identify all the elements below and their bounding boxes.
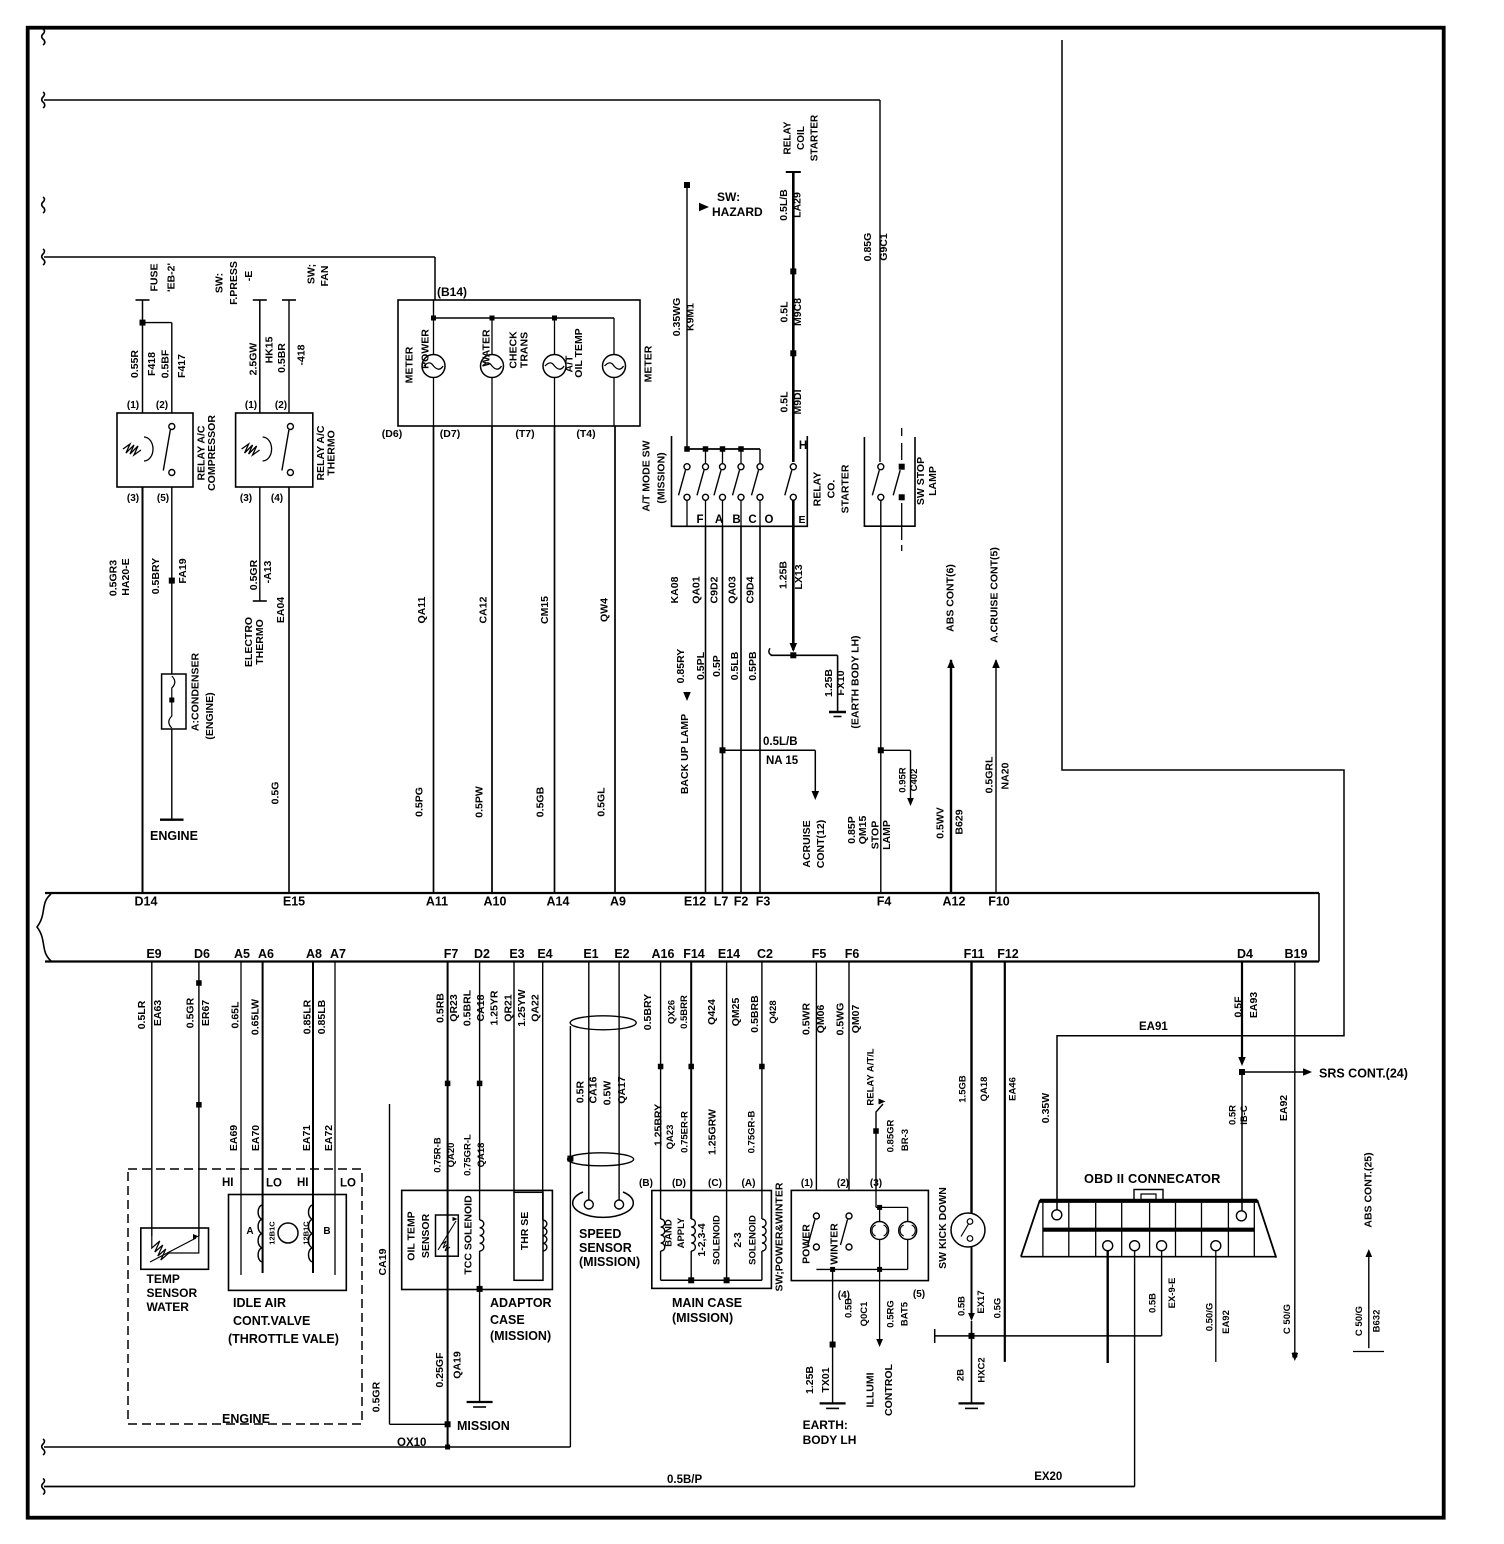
svg-text:CONTROL: CONTROL — [883, 1363, 895, 1415]
svg-text:ACRUISE: ACRUISE — [801, 820, 813, 867]
svg-text:EX-9-E: EX-9-E — [1167, 1278, 1178, 1309]
svg-text:F: F — [696, 514, 703, 526]
svg-text:SW;: SW; — [305, 264, 317, 284]
svg-text:CA12: CA12 — [478, 596, 490, 623]
svg-text:ER67: ER67 — [200, 1000, 212, 1026]
svg-text:BR-3: BR-3 — [900, 1129, 911, 1151]
svg-text:QA03: QA03 — [727, 576, 739, 604]
svg-text:E14: E14 — [718, 947, 740, 961]
svg-text:EX20: EX20 — [1034, 1471, 1062, 1483]
svg-text:EA69: EA69 — [228, 1125, 240, 1151]
svg-text:E3: E3 — [509, 947, 524, 961]
svg-text:(MISSION): (MISSION) — [672, 1311, 733, 1325]
svg-text:F10: F10 — [988, 895, 1010, 909]
svg-text:SENSOR: SENSOR — [147, 1286, 198, 1300]
svg-text:SENSOR: SENSOR — [579, 1241, 632, 1255]
svg-text:0.5PW: 0.5PW — [474, 786, 486, 818]
svg-text:EA63: EA63 — [152, 1000, 164, 1026]
svg-text:QA18: QA18 — [476, 1143, 487, 1168]
svg-text:0.5BRR: 0.5BRR — [679, 995, 690, 1029]
svg-text:EX17: EX17 — [976, 1290, 987, 1313]
svg-text:EA92: EA92 — [1278, 1095, 1290, 1121]
svg-text:0.75R-B: 0.75R-B — [433, 1137, 444, 1173]
svg-text:A12: A12 — [943, 895, 966, 909]
svg-text:1.25YR: 1.25YR — [489, 990, 501, 1025]
svg-text:(MISSION): (MISSION) — [490, 1329, 551, 1343]
svg-text:EA92: EA92 — [1221, 1310, 1232, 1334]
svg-text:A14: A14 — [547, 895, 570, 909]
svg-text:A: A — [715, 514, 723, 526]
svg-text:B: B — [323, 1226, 330, 1237]
svg-text:0.55R: 0.55R — [129, 350, 141, 378]
svg-text:A: A — [246, 1226, 253, 1237]
svg-text:0.5B: 0.5B — [1148, 1293, 1159, 1313]
svg-text:SPEED: SPEED — [579, 1227, 621, 1241]
svg-text:0.5L: 0.5L — [779, 391, 791, 413]
svg-text:TCC SOLENOID: TCC SOLENOID — [463, 1195, 475, 1275]
svg-text:0.5F: 0.5F — [1232, 996, 1244, 1018]
svg-text:THERMO: THERMO — [254, 619, 266, 665]
svg-text:0.50/G: 0.50/G — [1204, 1303, 1215, 1332]
svg-text:0.5G: 0.5G — [993, 1298, 1004, 1319]
svg-text:F14: F14 — [683, 947, 705, 961]
svg-text:0.5R: 0.5R — [574, 1080, 586, 1103]
svg-text:0.5GR: 0.5GR — [185, 997, 197, 1028]
svg-text:EA93: EA93 — [1248, 992, 1260, 1018]
svg-text:A16: A16 — [652, 947, 675, 961]
svg-text:0.75GR-L: 0.75GR-L — [463, 1134, 474, 1176]
svg-text:0.5GB: 0.5GB — [535, 786, 547, 817]
svg-text:D6: D6 — [194, 947, 210, 961]
svg-text:K9M1: K9M1 — [685, 303, 697, 331]
svg-text:(B): (B) — [639, 1178, 653, 1189]
svg-text:(1): (1) — [245, 400, 257, 411]
svg-text:0.5B: 0.5B — [844, 1298, 855, 1318]
svg-text:ELECTRO: ELECTRO — [243, 617, 255, 667]
svg-text:0.85RY: 0.85RY — [675, 649, 687, 684]
svg-text:TRANS: TRANS — [519, 332, 531, 368]
svg-text:(1): (1) — [801, 1178, 813, 1189]
svg-text:1.25B: 1.25B — [778, 561, 790, 589]
svg-text:FA19: FA19 — [177, 558, 189, 583]
svg-text:A7: A7 — [330, 947, 346, 961]
svg-text:POWER: POWER — [420, 329, 432, 369]
svg-text:0.5L/B: 0.5L/B — [763, 736, 798, 748]
svg-text:(5): (5) — [913, 1289, 925, 1300]
svg-text:EA72: EA72 — [323, 1125, 335, 1151]
svg-text:0.5GRL: 0.5GRL — [984, 756, 996, 793]
svg-text:HK15: HK15 — [263, 336, 275, 363]
svg-text:QA23: QA23 — [665, 1125, 676, 1150]
svg-text:(T4): (T4) — [576, 428, 595, 440]
svg-text:F2: F2 — [734, 895, 749, 909]
svg-text:F11: F11 — [964, 947, 985, 961]
svg-text:0.5L/B: 0.5L/B — [778, 189, 790, 221]
svg-text:H: H — [799, 440, 807, 452]
svg-text:C9D4: C9D4 — [745, 576, 757, 603]
svg-text:QA19: QA19 — [452, 1351, 464, 1379]
svg-text:E4: E4 — [537, 947, 552, 961]
svg-text:0.5GR3: 0.5GR3 — [108, 560, 120, 596]
svg-text:B19: B19 — [1285, 947, 1308, 961]
svg-text:0.5WR: 0.5WR — [801, 1003, 813, 1036]
svg-text:QM25: QM25 — [730, 998, 742, 1027]
svg-text:0.5PL: 0.5PL — [695, 651, 707, 680]
svg-text:B632: B632 — [1372, 1310, 1383, 1333]
svg-text:F418: F418 — [146, 352, 158, 376]
svg-text:BAND: BAND — [664, 1219, 675, 1247]
svg-text:0.75ER-R: 0.75ER-R — [680, 1111, 691, 1153]
svg-text:12B1C: 12B1C — [302, 1221, 311, 1245]
svg-text:CM15: CM15 — [539, 596, 551, 624]
svg-text:NA20: NA20 — [1000, 762, 1012, 789]
svg-text:CONT(12): CONT(12) — [815, 820, 827, 868]
svg-text:METER: METER — [643, 345, 655, 382]
svg-text:TX01: TX01 — [820, 1367, 832, 1392]
svg-text:QM15: QM15 — [857, 816, 869, 845]
svg-text:0.5RB: 0.5RB — [435, 993, 447, 1023]
svg-text:0.5WG: 0.5WG — [835, 1003, 847, 1036]
svg-text:LO: LO — [266, 1178, 282, 1190]
svg-text:M9DI: M9DI — [792, 389, 804, 414]
svg-text:QM06: QM06 — [815, 1005, 827, 1034]
svg-text:-418: -418 — [295, 344, 307, 365]
svg-text:C2: C2 — [757, 947, 773, 961]
svg-text:THR SE: THR SE — [519, 1212, 531, 1251]
svg-text:1-2,3-4: 1-2,3-4 — [696, 1223, 708, 1256]
svg-text:SW STOP: SW STOP — [915, 457, 927, 505]
svg-text:'EB-2': 'EB-2' — [166, 263, 178, 292]
svg-text:QA01: QA01 — [691, 576, 703, 604]
svg-text:G9C1: G9C1 — [878, 233, 890, 261]
svg-text:NA 15: NA 15 — [766, 755, 799, 767]
svg-text:-E: -E — [243, 271, 255, 282]
svg-text:WATER: WATER — [481, 329, 493, 367]
svg-text:CA18: CA18 — [475, 994, 487, 1021]
svg-text:0.5BRB: 0.5BRB — [749, 995, 761, 1033]
svg-text:0.65L: 0.65L — [230, 1001, 242, 1028]
svg-text:D14: D14 — [135, 895, 158, 909]
svg-text:METER: METER — [404, 346, 416, 383]
svg-text:HI: HI — [222, 1177, 234, 1189]
svg-text:(C): (C) — [708, 1178, 722, 1189]
svg-text:D4: D4 — [1237, 947, 1253, 961]
svg-text:0.25GF: 0.25GF — [434, 1352, 446, 1388]
svg-text:A9: A9 — [610, 895, 626, 909]
svg-text:0.5B: 0.5B — [957, 1296, 968, 1316]
svg-text:0.5BRY: 0.5BRY — [150, 558, 162, 594]
svg-text:LA29: LA29 — [792, 192, 804, 218]
svg-text:1.25BRY: 1.25BRY — [653, 1104, 665, 1146]
svg-text:(5): (5) — [157, 493, 169, 504]
svg-text:F417: F417 — [176, 354, 188, 378]
svg-text:1.25YW: 1.25YW — [516, 989, 528, 1026]
svg-text:FUSE: FUSE — [149, 263, 161, 291]
svg-text:RELAY: RELAY — [783, 121, 794, 154]
svg-text:LAMP: LAMP — [881, 820, 893, 850]
svg-text:ADAPTOR: ADAPTOR — [490, 1296, 552, 1310]
svg-text:0.5G: 0.5G — [270, 782, 282, 805]
svg-text:SW:: SW: — [214, 273, 226, 293]
svg-text:A8: A8 — [306, 947, 322, 961]
svg-text:SRS CONT.(24): SRS CONT.(24) — [1319, 1067, 1408, 1081]
svg-text:ABS CONT.(25): ABS CONT.(25) — [1363, 1152, 1375, 1227]
svg-text:HXC2: HXC2 — [977, 1357, 988, 1382]
svg-text:IB-C: IB-C — [1239, 1105, 1250, 1125]
svg-text:0.95R: 0.95R — [898, 767, 909, 792]
svg-text:SENSOR: SENSOR — [420, 1213, 432, 1258]
svg-text:(3): (3) — [240, 493, 252, 504]
svg-text:0.5RG: 0.5RG — [886, 1300, 897, 1327]
svg-text:1.25B: 1.25B — [823, 669, 835, 697]
svg-text:12B1C: 12B1C — [268, 1221, 277, 1245]
svg-text:E15: E15 — [283, 895, 305, 909]
svg-text:0.85LB: 0.85LB — [316, 999, 328, 1034]
svg-text:(ENGINE): (ENGINE) — [204, 692, 216, 739]
svg-text:1.25B: 1.25B — [804, 1366, 816, 1394]
svg-text:QR21: QR21 — [503, 994, 515, 1022]
svg-text:0.5WV: 0.5WV — [935, 807, 947, 839]
svg-text:CASE: CASE — [490, 1313, 525, 1327]
svg-text:BAT5: BAT5 — [900, 1301, 911, 1326]
svg-text:EA91: EA91 — [1139, 1021, 1168, 1033]
svg-text:L7: L7 — [714, 895, 729, 909]
svg-text:(3): (3) — [870, 1178, 882, 1189]
svg-text:(THROTTLE VALE): (THROTTLE VALE) — [228, 1332, 339, 1346]
svg-text:2B: 2B — [956, 1369, 967, 1381]
svg-text:(D6): (D6) — [382, 428, 402, 440]
svg-text:A/T MODE SW: A/T MODE SW — [641, 440, 653, 511]
svg-text:0.5GR: 0.5GR — [371, 1381, 383, 1412]
svg-text:SW;POWER&WINTER: SW;POWER&WINTER — [774, 1182, 786, 1291]
svg-text:0.75GR-B: 0.75GR-B — [747, 1110, 758, 1153]
svg-text:0.5LR: 0.5LR — [136, 1000, 148, 1029]
svg-text:E1: E1 — [583, 947, 598, 961]
svg-text:0.5GL: 0.5GL — [596, 787, 608, 817]
svg-text:M9C8: M9C8 — [792, 298, 804, 326]
svg-text:0.5PG: 0.5PG — [414, 787, 426, 817]
svg-text:QR23: QR23 — [448, 994, 460, 1022]
svg-text:CONT.VALVE: CONT.VALVE — [233, 1314, 310, 1328]
svg-text:EA70: EA70 — [250, 1125, 262, 1151]
svg-text:HAZARD: HAZARD — [712, 205, 763, 219]
svg-text:0.5PB: 0.5PB — [747, 651, 759, 681]
svg-text:(4): (4) — [271, 493, 283, 504]
svg-text:F6: F6 — [845, 947, 860, 961]
svg-text:ENGINE: ENGINE — [150, 829, 198, 843]
svg-text:0.85G: 0.85G — [862, 233, 874, 262]
svg-text:STOP: STOP — [870, 821, 882, 849]
svg-text:CA19: CA19 — [377, 1248, 389, 1275]
svg-text:A.CRUISE CONT(5): A.CRUISE CONT(5) — [989, 547, 1001, 643]
svg-text:(D7): (D7) — [440, 428, 460, 440]
svg-text:C 50/G: C 50/G — [1354, 1306, 1365, 1336]
svg-text:THERMO: THERMO — [326, 430, 338, 476]
svg-text:F3: F3 — [756, 895, 771, 909]
svg-text:0.5B/P: 0.5B/P — [667, 1474, 702, 1486]
svg-text:POWER: POWER — [801, 1224, 813, 1264]
svg-text:FX10: FX10 — [835, 670, 847, 695]
svg-text:0.35WG: 0.35WG — [671, 298, 683, 337]
svg-text:STARTER: STARTER — [810, 114, 821, 161]
svg-text:F7: F7 — [444, 947, 459, 961]
svg-text:ENGINE: ENGINE — [222, 1412, 270, 1426]
svg-text:QA18: QA18 — [979, 1077, 990, 1102]
svg-text:OIL TEMP: OIL TEMP — [406, 1211, 418, 1260]
svg-text:(A): (A) — [742, 1178, 756, 1189]
svg-text:EARTH:: EARTH: — [803, 1418, 848, 1432]
svg-text:FAN: FAN — [319, 266, 331, 287]
svg-text:0.65LW: 0.65LW — [250, 999, 262, 1035]
svg-text:0.35W: 0.35W — [1040, 1093, 1052, 1123]
svg-text:SOLENOID: SOLENOID — [748, 1215, 759, 1265]
svg-text:(2): (2) — [275, 400, 287, 411]
svg-text:2.5GW: 2.5GW — [247, 343, 259, 376]
svg-text:C9D2: C9D2 — [709, 576, 721, 603]
svg-text:0.5R: 0.5R — [1228, 1105, 1239, 1125]
svg-text:F.PRESS: F.PRESS — [228, 261, 240, 305]
svg-text:B: B — [732, 514, 740, 526]
svg-text:(1): (1) — [127, 400, 139, 411]
svg-text:APPLY: APPLY — [676, 1217, 687, 1248]
svg-text:0.5W: 0.5W — [602, 1081, 614, 1106]
svg-text:E12: E12 — [684, 895, 706, 909]
svg-text:(MISSION): (MISSION) — [656, 452, 668, 503]
svg-text:-A13: -A13 — [262, 560, 274, 583]
svg-text:SW KICK DOWN: SW KICK DOWN — [937, 1187, 949, 1269]
svg-text:0.5GR: 0.5GR — [248, 559, 260, 590]
svg-text:E2: E2 — [614, 947, 629, 961]
svg-text:0.85LR: 0.85LR — [302, 999, 314, 1034]
svg-text:OBD II CONNECATOR: OBD II CONNECATOR — [1084, 1171, 1221, 1186]
svg-text:HA20-E: HA20-E — [120, 558, 132, 595]
svg-text:QX26: QX26 — [667, 1000, 678, 1024]
svg-text:Q424: Q424 — [706, 999, 718, 1025]
svg-text:0.5BR: 0.5BR — [276, 343, 288, 373]
svg-text:A10: A10 — [484, 895, 507, 909]
svg-text:HI: HI — [297, 1177, 309, 1189]
svg-text:Q0C1: Q0C1 — [859, 1301, 870, 1327]
svg-text:(D): (D) — [672, 1178, 686, 1189]
svg-text:TEMP: TEMP — [147, 1272, 180, 1286]
svg-text:IDLE AIR: IDLE AIR — [233, 1296, 286, 1310]
svg-text:WATER: WATER — [147, 1300, 190, 1314]
svg-text:F12: F12 — [997, 947, 1019, 961]
svg-text:LX13: LX13 — [793, 564, 805, 589]
svg-text:Q428: Q428 — [768, 1000, 779, 1023]
svg-text:E9: E9 — [146, 947, 161, 961]
svg-text:CO.: CO. — [826, 480, 838, 499]
svg-text:F5: F5 — [812, 947, 827, 961]
svg-text:(2): (2) — [837, 1178, 849, 1189]
svg-text:0.5BF: 0.5BF — [160, 349, 172, 378]
svg-text:QA22: QA22 — [530, 994, 542, 1022]
svg-text:LAMP: LAMP — [927, 466, 939, 496]
svg-text:MISSION: MISSION — [457, 1419, 510, 1433]
svg-text:COMPRESSOR: COMPRESSOR — [206, 415, 218, 491]
svg-text:(2): (2) — [156, 400, 168, 411]
svg-text:EA46: EA46 — [1008, 1077, 1019, 1101]
svg-text:(MISSION): (MISSION) — [579, 1255, 640, 1269]
svg-text:QA17: QA17 — [616, 1076, 628, 1104]
svg-text:RELAY A/T/L: RELAY A/T/L — [866, 1048, 877, 1105]
svg-text:ABS CONT(6): ABS CONT(6) — [945, 564, 957, 632]
svg-text:MAIN CASE: MAIN CASE — [672, 1296, 742, 1310]
svg-text:ILLUMI: ILLUMI — [865, 1372, 877, 1407]
svg-text:OIL TEMP: OIL TEMP — [573, 328, 585, 377]
svg-text:EA04: EA04 — [275, 597, 287, 623]
svg-text:LO: LO — [340, 1178, 356, 1190]
svg-text:C 50/G: C 50/G — [1282, 1304, 1293, 1334]
svg-text:O: O — [765, 514, 774, 526]
svg-text:RELAY: RELAY — [812, 472, 824, 507]
svg-text:A11: A11 — [426, 895, 448, 909]
svg-text:A6: A6 — [258, 947, 274, 961]
svg-text:E: E — [798, 514, 805, 526]
svg-text:QA20: QA20 — [446, 1143, 457, 1168]
svg-text:C402: C402 — [909, 769, 920, 792]
svg-text:BODY LH: BODY LH — [803, 1433, 857, 1447]
svg-text:0.5L: 0.5L — [779, 301, 791, 323]
svg-text:(EARTH BODY LH): (EARTH BODY LH) — [850, 635, 862, 728]
svg-text:QW4: QW4 — [599, 598, 611, 622]
svg-text:0.5BRY: 0.5BRY — [642, 994, 654, 1030]
svg-text:SW:: SW: — [717, 190, 740, 204]
svg-text:1.25GRW: 1.25GRW — [707, 1109, 719, 1155]
svg-text:0.85GR: 0.85GR — [886, 1119, 897, 1152]
svg-text:KA08: KA08 — [669, 576, 681, 603]
svg-text:(B14): (B14) — [437, 285, 467, 299]
svg-text:OX10: OX10 — [397, 1437, 426, 1449]
svg-text:2-3: 2-3 — [732, 1232, 744, 1247]
svg-text:0.5P: 0.5P — [711, 655, 723, 677]
svg-text:WINTER: WINTER — [829, 1223, 841, 1265]
svg-text:CA16: CA16 — [588, 1076, 600, 1103]
svg-text:1.5GB: 1.5GB — [958, 1075, 969, 1103]
svg-text:A:CONDENSER: A:CONDENSER — [190, 652, 202, 731]
svg-text:BACK UP LAMP: BACK UP LAMP — [679, 714, 691, 794]
svg-text:A5: A5 — [234, 947, 250, 961]
svg-text:(T7): (T7) — [515, 428, 534, 440]
svg-text:(3): (3) — [127, 493, 139, 504]
svg-text:0.5BRL: 0.5BRL — [462, 989, 474, 1026]
svg-text:COIL: COIL — [796, 126, 807, 150]
svg-text:D2: D2 — [474, 947, 490, 961]
svg-text:STARTER: STARTER — [840, 464, 852, 513]
svg-text:QA11: QA11 — [416, 596, 428, 623]
svg-text:B629: B629 — [954, 809, 966, 834]
svg-text:QM07: QM07 — [850, 1005, 862, 1034]
svg-text:SOLENOID: SOLENOID — [712, 1215, 723, 1265]
svg-text:C: C — [748, 514, 756, 526]
svg-text:F4: F4 — [877, 895, 892, 909]
svg-text:EA71: EA71 — [301, 1125, 313, 1151]
svg-text:0.5LB: 0.5LB — [729, 651, 741, 680]
